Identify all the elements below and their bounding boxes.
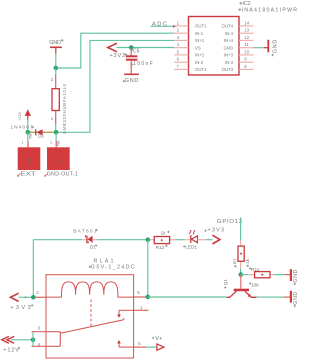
pad GND (lower right) <box>284 291 299 307</box>
wire node A down to pad EXT <box>22 132 29 147</box>
svg-text:R11: R11 <box>251 267 260 273</box>
wire node C down to relay pin 5 row <box>147 240 149 297</box>
wire LED1 to +3V3 arrow <box>206 239 213 241</box>
resistor R11 10k <box>248 267 273 288</box>
relay pin 2 (coil left) <box>32 290 46 297</box>
svg-text:1: 1 <box>177 20 180 25</box>
ground symbol top-left (flipped, bar on top) <box>49 39 63 54</box>
svg-text:IN-3: IN-3 <box>225 60 234 65</box>
transistor Q1 <box>223 275 256 298</box>
svg-text:100nF: 100nF <box>133 61 153 67</box>
svg-text:INA4180A1IPWR: INA4180A1IPWR <box>242 7 298 13</box>
relay pin 1 (NO contact, unconnected) <box>117 305 148 318</box>
resistor R7 1k (vertical) <box>232 240 250 268</box>
wire node F to relay pins 3 and 4 <box>32 332 34 347</box>
ground below C5 <box>123 74 139 84</box>
IC2 pin 10 IN+3 <box>224 49 254 57</box>
svg-text:5: 5 <box>137 290 140 295</box>
net flag V+ (open arrow right) <box>152 336 164 350</box>
relay RLA1 box <box>46 275 134 358</box>
junction node D (Q1 base node) <box>239 272 244 277</box>
junction node C (coil drive node) <box>146 237 151 242</box>
svg-text:P$1: P$1 <box>28 158 32 164</box>
wire node B down to pad GND-OUT-1 <box>50 132 56 147</box>
IC2 pin 7 OUT2 <box>174 64 207 72</box>
svg-text:GND: GND <box>293 270 299 283</box>
wire GND stem to junction <box>55 54 57 68</box>
svg-text:BAT60J: BAT60J <box>73 229 97 235</box>
svg-text:G5V-1_24DC: G5V-1_24DC <box>91 265 135 271</box>
svg-text:GND-OUT-1: GND-OUT-1 <box>47 172 78 178</box>
svg-text:+3V3: +3V3 <box>208 228 225 234</box>
IC2 pin 8 OUT3 <box>222 64 254 72</box>
op-amp IC2 INA4180A1IPWR body <box>189 1 298 75</box>
wire fuse bottom to node <box>55 125 57 132</box>
svg-text:10k: 10k <box>251 282 259 288</box>
wire D1 to coil node junction <box>97 239 148 241</box>
wire relay pin6 to V+ arrow <box>146 346 157 348</box>
relay pin 5 (coil right) <box>134 290 148 297</box>
svg-text:R12: R12 <box>156 245 165 251</box>
wire junction to fuse top <box>55 68 57 74</box>
ground symbol right of IC pin 11 <box>253 40 278 57</box>
svg-text:IC2: IC2 <box>243 1 251 7</box>
svg-text:ADC: ADC <box>152 21 167 27</box>
svg-text:SMR320HUBFA10L0: SMR320HUBFA10L0 <box>62 83 67 134</box>
wire junction to IC pin 2 (IN-1 net) <box>56 33 174 68</box>
wire IC pin 3 to fuse bottom node <box>56 40 174 132</box>
svg-text:+3V3: +3V3 <box>110 53 126 59</box>
junction node F (+12V to relay pins 3,4) <box>31 338 36 343</box>
supply arrow +3V3 (pointing left) <box>108 43 127 59</box>
svg-text:6: 6 <box>138 341 141 346</box>
svg-text:+12V: +12V <box>3 348 19 354</box>
svg-text:EXT: EXT <box>20 172 37 178</box>
svg-text:R7: R7 <box>232 258 237 264</box>
svg-text:IN-2: IN-2 <box>195 60 204 65</box>
svg-text:IN-4: IN-4 <box>225 31 234 36</box>
svg-text:OUT2: OUT2 <box>195 67 207 72</box>
wire IC pin 4 VS to +3V3 arrow <box>117 47 175 49</box>
svg-text:9: 9 <box>244 57 247 62</box>
wire flyback row left segment <box>33 239 82 241</box>
relay RLA1 G5V-1_24DC : labels <box>89 258 135 270</box>
IC2 pin 11 GND <box>223 42 253 50</box>
supply arrow +3V3 (pointing right) <box>204 228 224 244</box>
svg-text:8: 8 <box>244 64 247 69</box>
IC2 pin 3 IN+1 <box>174 35 205 43</box>
IC2 pin 14 OUT4 <box>222 20 254 28</box>
junction node B (right, fuse bottom) <box>54 130 59 135</box>
diode D3 1N4007 <box>11 124 61 146</box>
svg-text:IN+1: IN+1 <box>195 38 205 43</box>
svg-text:GPIO13: GPIO13 <box>217 219 242 225</box>
svg-text:IN-1: IN-1 <box>195 31 204 36</box>
svg-text:OUT4: OUT4 <box>222 24 234 29</box>
junction node A (left, EXT) <box>26 130 31 135</box>
wire node D to R11 <box>241 274 249 276</box>
svg-text:RLA1: RLA1 <box>94 258 114 264</box>
svg-text:IN+3: IN+3 <box>224 53 234 58</box>
svg-text:GND: GND <box>273 40 279 54</box>
supply arrow +3V3 at relay pin 2 (pointing left) <box>10 293 33 311</box>
svg-text:14: 14 <box>244 20 249 25</box>
svg-text:1N4007: 1N4007 <box>11 124 33 129</box>
svg-text:V+: V+ <box>155 336 162 342</box>
svg-text:GND: GND <box>49 40 61 46</box>
IC2 pin 12 IN+4 <box>224 35 254 43</box>
junction at C5 top <box>129 45 134 50</box>
svg-text:GND: GND <box>223 45 233 50</box>
svg-text:10: 10 <box>244 49 249 54</box>
svg-text:2: 2 <box>177 28 180 33</box>
IC2 pin 5 IN+2 <box>174 49 205 57</box>
node GPIO13 : net label and wire <box>217 217 242 240</box>
IC2 pin 6 IN-2 <box>174 57 204 65</box>
diode D1 BAT60J (schottky, cathode left) <box>73 229 98 251</box>
IC2 pin 4 VS <box>174 42 201 50</box>
svg-text:11: 11 <box>244 42 249 47</box>
svg-text:6: 6 <box>177 57 180 62</box>
relay actuator dashed link <box>90 300 92 327</box>
relay pin 6 (common contact) <box>117 340 146 347</box>
svg-text:P$1: P$1 <box>57 158 61 164</box>
junction at relay pin 5 <box>146 295 151 300</box>
svg-text:VS: VS <box>195 45 201 50</box>
relay pin 3 and 4 bracket <box>32 325 61 347</box>
svg-text:+3V3: +3V3 <box>10 305 31 311</box>
svg-text:2: 2 <box>51 77 54 82</box>
svg-text:D3: D3 <box>38 134 44 139</box>
svg-text:GND: GND <box>293 292 299 305</box>
svg-text:LED1: LED1 <box>185 245 197 251</box>
IC2 pin 1 OUT1 <box>174 20 207 28</box>
wire Q1 emitter to GND pad <box>256 296 284 298</box>
resistor R12 1k <box>150 231 175 251</box>
svg-text:1: 1 <box>51 116 54 121</box>
wire left vertical +3V3 rail (relay pin2 up to flyback row) <box>32 240 34 298</box>
svg-text:P$1: P$1 <box>56 140 60 146</box>
svg-text:1: 1 <box>50 140 52 144</box>
svg-text:7: 7 <box>177 64 180 69</box>
pad GND (upper right) <box>285 269 299 285</box>
IC2 pin 9 IN-3 <box>225 57 254 65</box>
svg-text:1: 1 <box>22 140 24 144</box>
svg-text:5: 5 <box>177 49 180 54</box>
svg-text:GND: GND <box>125 78 139 84</box>
svg-text:2: 2 <box>36 290 39 295</box>
svg-text:12: 12 <box>244 35 249 40</box>
svg-text:IN+2: IN+2 <box>195 53 205 58</box>
svg-text:IN+4: IN+4 <box>224 38 234 43</box>
svg-text:1: 1 <box>140 305 143 310</box>
svg-text:+12V: +12V <box>17 111 22 121</box>
svg-text:1k: 1k <box>245 258 250 264</box>
node ADC : net label and wire to IC pin 1 <box>151 21 177 27</box>
IC2 pin 2 IN-1 <box>174 28 204 36</box>
svg-text:1k: 1k <box>161 231 167 237</box>
wire R11 to GND pad <box>273 274 284 276</box>
pad GND-OUT-1 <box>45 147 78 177</box>
wire R12 to LED1 <box>176 239 185 241</box>
svg-text:Q1: Q1 <box>223 279 228 286</box>
LED LED1 <box>183 230 206 250</box>
junction below top ground <box>54 66 59 71</box>
capacitor C5 100nF <box>126 48 153 75</box>
svg-text:OUT3: OUT3 <box>222 67 234 72</box>
svg-text:3: 3 <box>38 325 41 330</box>
supply arrow +12V (double chevron left) <box>2 336 33 353</box>
wire R7 to base junction <box>240 268 242 274</box>
svg-text:C5: C5 <box>133 48 140 54</box>
IC2 pin 13 IN-4 <box>225 28 254 36</box>
svg-text:OUT1: OUT1 <box>195 24 207 29</box>
fuse F1 SMR320 (vertical) <box>51 74 67 134</box>
svg-text:13: 13 <box>244 28 249 33</box>
relay switch lever <box>60 318 124 333</box>
svg-text:3: 3 <box>177 35 180 40</box>
wire diode row <box>28 131 56 133</box>
wire relay pin5 to Q1 collector <box>148 296 227 298</box>
supply arrow +12V (triangle up) above left node <box>17 109 31 132</box>
relay coil <box>46 282 134 297</box>
pad EXT <box>17 147 40 177</box>
junction node E (relay pin 2 / +3V3) <box>31 295 36 300</box>
svg-text:4: 4 <box>177 42 180 47</box>
